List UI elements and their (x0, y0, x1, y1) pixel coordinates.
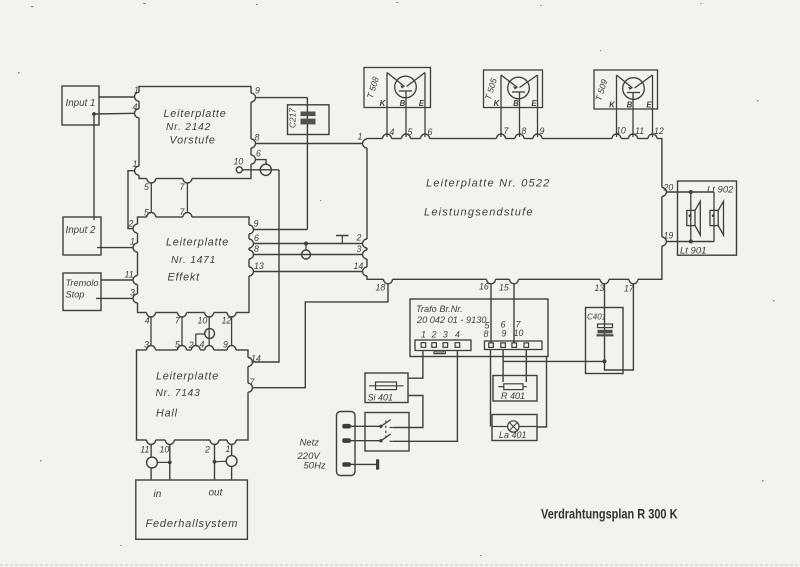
svg-text:8: 8 (254, 244, 259, 254)
svg-text:16: 16 (479, 282, 489, 292)
svg-text:Effekt: Effekt (168, 272, 201, 284)
svg-text:13: 13 (595, 283, 605, 293)
svg-text:2: 2 (128, 219, 134, 229)
svg-text:Stop: Stop (66, 290, 85, 300)
svg-text:Input 1: Input 1 (66, 98, 96, 109)
svg-text:18: 18 (376, 283, 386, 293)
svg-text:5: 5 (175, 340, 180, 350)
svg-text:2: 2 (188, 340, 194, 350)
svg-text:10: 10 (198, 316, 208, 326)
svg-text:Federhallsystem: Federhallsystem (146, 518, 239, 530)
svg-text:15: 15 (499, 283, 509, 293)
svg-text:11: 11 (140, 445, 149, 455)
svg-text:1: 1 (226, 444, 231, 454)
svg-text:E: E (531, 99, 537, 108)
svg-text:20 042 01 - 9130: 20 042 01 - 9130 (416, 315, 487, 325)
svg-text:3: 3 (144, 340, 149, 350)
svg-text:6: 6 (428, 127, 433, 137)
svg-text:4: 4 (133, 102, 138, 112)
svg-text:Lt 901: Lt 901 (680, 246, 706, 257)
svg-text:Hall: Hall (156, 408, 178, 420)
svg-text:11: 11 (125, 270, 134, 280)
svg-text:Nr. 7143: Nr. 7143 (156, 388, 201, 399)
svg-text:4: 4 (200, 340, 205, 350)
svg-text:17: 17 (624, 284, 635, 294)
svg-text:Leiterplatte Nr. 0522: Leiterplatte Nr. 0522 (426, 178, 550, 190)
svg-text:3: 3 (357, 244, 362, 254)
svg-text:La 401: La 401 (499, 430, 527, 440)
svg-text:Trafo Br.Nr.: Trafo Br.Nr. (416, 304, 463, 314)
svg-text:9: 9 (254, 219, 259, 229)
svg-text:6: 6 (254, 233, 259, 243)
svg-text:Tremolo: Tremolo (66, 278, 99, 288)
svg-text:13: 13 (254, 261, 264, 271)
svg-text:12: 12 (222, 316, 232, 326)
svg-text:20: 20 (663, 183, 674, 193)
svg-text:Leistungsendstufe: Leistungsendstufe (424, 207, 534, 219)
svg-text:C401: C401 (587, 313, 606, 322)
svg-text:Si 401: Si 401 (368, 393, 394, 403)
svg-text:C217: C217 (288, 108, 298, 128)
svg-text:4: 4 (390, 127, 395, 137)
svg-text:5: 5 (144, 208, 149, 218)
svg-text:9: 9 (540, 126, 545, 136)
svg-text:Nr. 2142: Nr. 2142 (166, 122, 211, 133)
svg-text:E: E (419, 99, 425, 108)
svg-text:1: 1 (130, 237, 135, 247)
svg-text:8: 8 (484, 329, 489, 339)
svg-text:B: B (513, 99, 519, 108)
svg-text:Leiterplatte: Leiterplatte (164, 108, 227, 120)
svg-text:9: 9 (223, 340, 228, 350)
svg-text:14: 14 (251, 354, 261, 364)
svg-text:11: 11 (635, 126, 644, 136)
svg-text:1: 1 (358, 132, 363, 142)
svg-text:4: 4 (455, 330, 460, 340)
svg-text:out: out (209, 488, 224, 499)
svg-text:5: 5 (144, 182, 149, 192)
svg-text:14: 14 (354, 261, 364, 271)
svg-text:9: 9 (502, 329, 507, 339)
svg-text:2: 2 (204, 445, 210, 455)
svg-text:9: 9 (255, 86, 260, 96)
svg-text:8: 8 (255, 133, 260, 143)
svg-text:10: 10 (616, 126, 626, 136)
svg-text:Nr. 1471: Nr. 1471 (171, 255, 216, 266)
svg-text:Netz: Netz (300, 438, 320, 449)
svg-text:R 401: R 401 (501, 391, 525, 401)
svg-text:B: B (400, 99, 406, 108)
svg-text:19: 19 (664, 231, 674, 241)
svg-text:10: 10 (514, 328, 524, 338)
svg-text:6: 6 (256, 149, 261, 159)
svg-text:1: 1 (134, 85, 139, 95)
svg-text:12: 12 (654, 126, 664, 136)
svg-text:E: E (646, 101, 652, 110)
svg-text:10: 10 (160, 445, 170, 455)
svg-text:8: 8 (522, 126, 527, 136)
svg-text:3: 3 (130, 288, 135, 298)
svg-text:2: 2 (431, 330, 437, 340)
svg-text:Lt 902: Lt 902 (707, 185, 734, 196)
svg-text:Verdrahtungsplan R 300 K: Verdrahtungsplan R 300 K (541, 506, 678, 522)
svg-text:1: 1 (133, 159, 138, 169)
svg-text:50Hz: 50Hz (304, 461, 326, 472)
svg-text:10: 10 (234, 157, 244, 167)
svg-text:4: 4 (145, 316, 150, 326)
svg-text:in: in (154, 489, 162, 500)
svg-text:3: 3 (443, 330, 448, 340)
svg-text:Input 2: Input 2 (66, 225, 97, 236)
svg-text:2: 2 (356, 233, 362, 243)
svg-text:B: B (627, 101, 633, 110)
svg-text:Leiterplatte: Leiterplatte (156, 371, 219, 383)
svg-text:1: 1 (421, 330, 426, 340)
svg-text:Vorstufe: Vorstufe (170, 135, 216, 147)
svg-text:5: 5 (408, 127, 413, 137)
svg-text:Leiterplatte: Leiterplatte (166, 237, 229, 249)
